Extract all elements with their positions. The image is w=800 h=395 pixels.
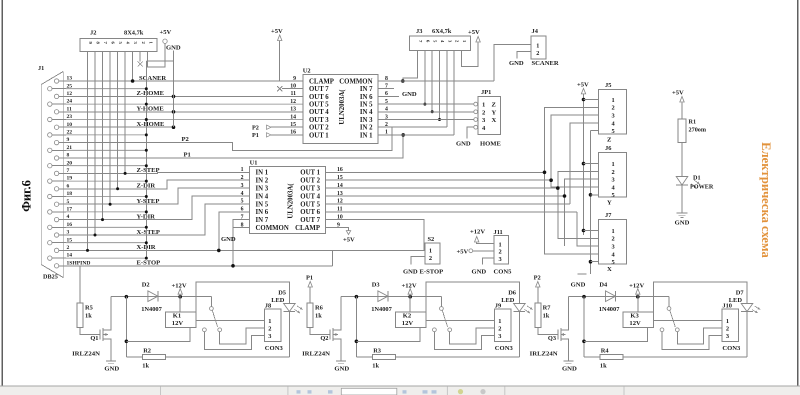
svg-text:CLAMP: CLAMP	[295, 225, 320, 232]
svg-text:CON3: CON3	[495, 345, 514, 352]
svg-text:P2: P2	[252, 124, 259, 131]
svg-text:2: 2	[612, 105, 615, 112]
wire SCANER row (pin13) to U2 pin9	[66, 80, 303, 82]
svg-text:7: 7	[241, 215, 244, 221]
svg-text:GND: GND	[675, 220, 690, 227]
svg-text:IN 7: IN 7	[256, 217, 269, 224]
svg-text:2: 2	[499, 249, 502, 256]
wire Q1 drain to K1 and R2	[125, 297, 127, 357]
svg-text:1: 1	[536, 42, 539, 49]
wire Y-HOME row (pin11) to U2 pin13	[66, 111, 303, 113]
bottom rail of block J10	[623, 356, 747, 358]
svg-text:OUT 4: OUT 4	[309, 109, 329, 116]
svg-text:2: 2	[536, 50, 539, 57]
svg-text:3: 3	[241, 183, 244, 189]
U2 IN5 wire to JP1 pin1	[378, 103, 474, 105]
svg-text:2: 2	[612, 236, 615, 243]
svg-text:IN 4: IN 4	[360, 109, 373, 116]
svg-text:4: 4	[241, 191, 244, 197]
svg-text:X: X	[607, 266, 612, 273]
svg-text:1: 1	[429, 247, 432, 254]
svg-text:5: 5	[612, 192, 615, 199]
connector J10 CON3	[722, 309, 739, 341]
svg-text:+12V: +12V	[402, 282, 417, 289]
wire J11 pin3 to GND	[483, 258, 494, 264]
svg-text:1: 1	[482, 102, 485, 109]
resistor R6 1k	[307, 303, 313, 327]
wire J4 pin2 to GND	[517, 52, 531, 59]
svg-text:U2: U2	[303, 68, 311, 75]
svg-text:J4: J4	[532, 28, 539, 35]
svg-text:CON3: CON3	[265, 345, 284, 352]
svg-text:2: 2	[612, 169, 615, 176]
wire X-DIR row to U1 IN6 and S2	[66, 249, 425, 251]
svg-text:P2: P2	[182, 136, 190, 143]
svg-text:OUT 2: OUT 2	[300, 178, 320, 185]
wire E-STOP row down to R5	[79, 266, 81, 303]
routing vertical to J6 pin2 / J7 pin2	[558, 171, 599, 238]
svg-text:Q1: Q1	[90, 335, 98, 342]
J3 columns to JP1 rows	[423, 51, 441, 121]
J2 no-connect column with X	[139, 52, 141, 62]
svg-text:9: 9	[293, 76, 296, 82]
svg-text:IRLZ24N: IRLZ24N	[530, 351, 558, 358]
svg-text:R1: R1	[689, 119, 697, 126]
svg-text:GND: GND	[104, 366, 119, 373]
svg-text:IN 1: IN 1	[360, 132, 373, 139]
svg-text:D3: D3	[372, 281, 380, 288]
svg-text:OUT 1: OUT 1	[300, 170, 320, 177]
resistor R5 1k	[77, 303, 83, 327]
IC U2 ULN2003A	[303, 75, 378, 144]
svg-text:D1: D1	[693, 175, 701, 182]
svg-text:IN 2: IN 2	[256, 178, 269, 185]
wire Q3 drain to K3 and R4	[583, 297, 585, 357]
GND bus of J5/J6/J7	[590, 131, 592, 274]
svg-text:OUT 7: OUT 7	[309, 86, 329, 93]
wire U1 OUT5 runner	[325, 203, 570, 205]
svg-text:Фиг.6: Фиг.6	[20, 180, 34, 212]
resistor R3 1k	[372, 355, 395, 360]
svg-text:3: 3	[726, 333, 729, 340]
svg-text:J6: J6	[605, 145, 612, 152]
svg-text:12V: 12V	[172, 320, 184, 327]
+5V flag feeding J5/J6/J7	[581, 88, 585, 94]
svg-text:OUT 7: OUT 7	[300, 217, 320, 224]
svg-text:1k: 1k	[543, 313, 550, 320]
svg-text:X: X	[492, 117, 497, 124]
svg-text:+5V: +5V	[457, 248, 469, 255]
svg-text:J5: J5	[605, 82, 611, 89]
bottom rail of block J9	[396, 356, 520, 358]
LED D6	[426, 282, 519, 312]
svg-text:E-STOP: E-STOP	[420, 269, 444, 276]
J2 column to SCANER row	[132, 52, 134, 81]
switch connector S2 E-STOP	[425, 243, 440, 264]
svg-text:K3: K3	[630, 313, 639, 320]
U2 IN7 stub	[378, 88, 394, 90]
svg-text:2: 2	[429, 255, 432, 262]
wire K2 to J9 pin1	[426, 320, 494, 322]
svg-text:LED: LED	[501, 297, 515, 304]
svg-text:HOME: HOME	[480, 141, 501, 148]
svg-text:CON3: CON3	[722, 345, 741, 352]
svg-text:+5V: +5V	[271, 28, 283, 35]
svg-text:1N4007: 1N4007	[599, 306, 620, 313]
svg-text:1k: 1k	[142, 362, 149, 369]
svg-text:D6: D6	[508, 290, 517, 297]
routing vertical OUT6 to J7 pin3	[577, 212, 599, 246]
wire U1 OUT3 runner	[325, 187, 558, 189]
svg-text:2: 2	[268, 326, 271, 333]
ground symbol at Q1 source	[106, 360, 116, 362]
svg-text:OUT 2: OUT 2	[309, 125, 329, 132]
svg-text:Z: Z	[492, 102, 497, 109]
svg-text:SCANER: SCANER	[532, 60, 559, 67]
relay K3 contacts	[668, 297, 670, 307]
JP1 pin4 wire to GND	[467, 127, 474, 138]
svg-text:12V: 12V	[402, 320, 414, 327]
svg-text:LED: LED	[271, 297, 285, 304]
svg-text:OUT 5: OUT 5	[300, 201, 320, 208]
svg-text:1N4007: 1N4007	[371, 306, 392, 313]
svg-text:Q2: Q2	[320, 335, 328, 342]
svg-text:GND: GND	[334, 366, 349, 373]
svg-text:Z: Z	[607, 136, 612, 143]
resistor R1 270ohm	[678, 119, 686, 143]
svg-text:+12V: +12V	[470, 228, 485, 235]
svg-text:J10: J10	[722, 303, 732, 310]
svg-text:P1: P1	[252, 132, 259, 139]
routing vertical to J6 pin3 / J7 pin3 upper	[565, 179, 599, 246]
bottom rail of block J8	[166, 356, 290, 358]
U2 IN1 wire	[378, 134, 454, 136]
svg-text:CON5: CON5	[494, 269, 513, 276]
svg-text:K1: K1	[173, 313, 181, 320]
svg-text:OUT 6: OUT 6	[309, 94, 329, 101]
svg-text:1k: 1k	[85, 313, 92, 320]
wire S2 pin2 to GND	[411, 256, 425, 264]
svg-text:Y: Y	[492, 109, 497, 116]
resistor network J3 6X4.7k	[410, 36, 471, 51]
ground symbol near J2	[146, 60, 173, 62]
svg-text:6: 6	[241, 207, 244, 213]
wire U1 OUT2 runner	[325, 179, 551, 181]
diode D2 1N4007	[148, 291, 158, 302]
relay K2 contacts	[440, 297, 442, 307]
routing vertical to J5 pin2 / J7 pin4	[545, 107, 599, 254]
svg-text:Електрическа схема: Електрическа схема	[759, 142, 773, 258]
svg-text:1: 1	[726, 318, 729, 325]
wire Z-HOME row (pin12) to U2 pin11	[66, 95, 303, 97]
svg-text:GND: GND	[166, 45, 181, 52]
svg-text:IN 2: IN 2	[360, 125, 373, 132]
svg-text:1: 1	[612, 228, 615, 235]
svg-text:1: 1	[241, 167, 244, 173]
svg-text:+5V: +5V	[160, 29, 172, 36]
U2 pin10 no-connect X	[282, 88, 303, 90]
resistor network J2 8X4.7k	[80, 38, 157, 51]
connector J1 DB25 outline	[41, 72, 63, 278]
svg-text:COMMON: COMMON	[256, 225, 289, 232]
viewer toolbar	[0, 386, 800, 395]
svg-text:P1: P1	[306, 274, 313, 281]
svg-text:5: 5	[241, 199, 244, 205]
svg-text:JP1: JP1	[481, 89, 491, 96]
connector J9 CON3	[494, 309, 511, 341]
svg-text:R3: R3	[373, 348, 381, 355]
svg-text:R7: R7	[543, 305, 552, 312]
transistor Q2 IRLZ24N	[310, 327, 330, 334]
connector J6	[599, 153, 627, 198]
svg-text:2: 2	[241, 175, 244, 181]
svg-text:270om: 270om	[689, 127, 707, 134]
U2 right pin numbers	[385, 76, 388, 136]
svg-text:+5V: +5V	[468, 29, 480, 36]
svg-text:ULN2003A(: ULN2003A(	[288, 183, 295, 219]
svg-text:J9: J9	[495, 303, 501, 310]
svg-text:3: 3	[612, 244, 615, 251]
wire E-STOP row to U1 IN7 and jog to S2 line	[66, 265, 333, 267]
svg-text:5: 5	[612, 259, 615, 266]
wire Y-DIR row to U1 IN4	[66, 196, 250, 220]
svg-text:IN 3: IN 3	[256, 186, 269, 193]
svg-text:Z-HOME: Z-HOME	[137, 90, 165, 97]
U2 IN6 stub to GND label	[378, 95, 399, 97]
svg-text:GND: GND	[472, 269, 487, 276]
J1 pin circles and leads	[48, 79, 66, 268]
svg-text:14: 14	[290, 114, 296, 120]
svg-text:1: 1	[498, 318, 501, 325]
svg-text:J2: J2	[90, 30, 96, 37]
U2 +5V to CLAMP	[279, 41, 281, 81]
svg-text:+5V: +5V	[577, 82, 589, 89]
svg-text:3: 3	[268, 333, 271, 340]
svg-text:IRLZ24N: IRLZ24N	[302, 351, 330, 358]
svg-text:J11: J11	[494, 229, 503, 236]
svg-text:IN 4: IN 4	[256, 193, 269, 200]
routing vertical to J5 pin3 / J6 pin4	[551, 115, 598, 187]
U2 IN3 wire to JP1 pin3	[378, 119, 474, 121]
drain rail of Q1	[111, 296, 212, 298]
svg-text:K2: K2	[403, 313, 412, 320]
svg-text:COMMON: COMMON	[339, 78, 372, 85]
svg-text:GND: GND	[456, 141, 471, 148]
connector J7	[599, 219, 627, 264]
LED D1 POWER	[676, 177, 688, 186]
svg-text:+5V: +5V	[343, 236, 355, 243]
J3 column to U2 COMMON node	[403, 51, 418, 81]
svg-text:6X4,7k: 6X4,7k	[432, 28, 452, 35]
junction dots on HOME rows	[172, 95, 176, 99]
routing vertical J5 pin4 to OUT5	[570, 123, 598, 204]
svg-text:P2: P2	[534, 274, 541, 281]
IC U1 ULN2003A	[250, 167, 326, 234]
ground symbol for D1	[677, 212, 688, 214]
wire K1 to J8 pin1	[196, 320, 264, 322]
svg-text:OUT 4: OUT 4	[300, 193, 320, 200]
svg-text:1k: 1k	[600, 362, 607, 369]
svg-text:SCANER: SCANER	[139, 75, 166, 82]
relay K2 coil 12V	[395, 312, 426, 327]
wire J4 pin1 to SCANER node	[494, 44, 531, 81]
svg-text:+5V: +5V	[672, 90, 684, 97]
signal name labels	[137, 75, 167, 267]
svg-text:IN 7: IN 7	[360, 86, 373, 93]
svg-text:D7: D7	[736, 290, 745, 297]
U2 IN4 wire to JP1 pin2	[378, 111, 474, 113]
U2 left pin numbers	[290, 76, 296, 136]
svg-text:13: 13	[290, 107, 296, 113]
drain rail of Q2	[341, 296, 442, 298]
svg-text:GND: GND	[571, 282, 586, 289]
U2 COMMON row wire to J4 drop	[378, 80, 494, 82]
svg-text:X-STEP: X-STEP	[137, 229, 160, 236]
svg-text:D5: D5	[278, 290, 286, 297]
wire Z-DIR row to U1 IN2	[66, 180, 250, 189]
LED D7	[654, 282, 747, 312]
relay K1 contacts	[210, 297, 212, 307]
connector JP1 HOME	[478, 97, 501, 135]
connector J5	[599, 90, 627, 135]
svg-text:OUT 1: OUT 1	[309, 132, 329, 139]
svg-text:GND: GND	[509, 60, 524, 67]
svg-text:E-STOP: E-STOP	[137, 260, 161, 267]
transistor Q3 IRLZ24N	[538, 327, 558, 334]
ground symbol at Q3 source	[563, 360, 573, 362]
svg-text:3: 3	[498, 333, 501, 340]
resistor R4 1k	[600, 355, 623, 360]
wire Z-STEP row to U1 IN1	[66, 172, 250, 173]
wire U1 OUT1 runner	[325, 171, 544, 173]
svg-text:R2: R2	[143, 348, 151, 355]
U2 IN2 wire	[378, 126, 447, 128]
svg-text:OUT 6: OUT 6	[300, 209, 320, 216]
svg-text:R6: R6	[315, 305, 324, 312]
svg-text:5: 5	[612, 128, 615, 135]
svg-text:+12V: +12V	[629, 282, 644, 289]
connector J8 CON3	[264, 309, 281, 341]
svg-text:GND: GND	[403, 269, 418, 276]
svg-text:GND: GND	[221, 236, 236, 243]
svg-text:J1: J1	[38, 65, 44, 72]
U1 COMMON to GND	[233, 228, 250, 234]
svg-text:D4: D4	[599, 281, 608, 288]
svg-text:Y-HOME: Y-HOME	[137, 106, 165, 113]
svg-text:3: 3	[612, 113, 615, 120]
svg-text:IRLZ24N: IRLZ24N	[72, 351, 100, 358]
svg-text:R4: R4	[601, 348, 610, 355]
svg-text:OUT 5: OUT 5	[309, 102, 329, 109]
connector J4	[531, 36, 546, 59]
LED D5	[196, 282, 289, 312]
wire ground rows pins 25-14	[66, 89, 303, 258]
svg-text:1: 1	[268, 318, 271, 325]
diode D3 1N4007	[378, 291, 388, 302]
J2 pull-up columns to STEP/DIR rows	[86, 52, 127, 252]
svg-text:U1: U1	[250, 160, 258, 167]
svg-text:IN 5: IN 5	[360, 102, 373, 109]
page right border	[797, 0, 799, 386]
svg-text:11: 11	[291, 91, 297, 97]
J3 columns to P2/P1 rows	[446, 51, 448, 128]
wire K3 to J10 pin1	[654, 320, 722, 322]
ground bus vertical	[145, 61, 147, 258]
svg-text:IN 6: IN 6	[360, 94, 373, 101]
svg-text:OUT 3: OUT 3	[309, 117, 329, 124]
svg-text:S2: S2	[428, 236, 435, 243]
page left border	[1, 0, 3, 386]
wire U1 OUT4 runner	[325, 195, 564, 197]
svg-text:IN 6: IN 6	[256, 209, 269, 216]
wire X-HOME row (pin10) to GND stem	[66, 126, 174, 128]
svg-text:12: 12	[290, 99, 296, 105]
svg-text:2: 2	[498, 326, 501, 333]
resistor R2 1k	[142, 355, 165, 360]
J1 pin numbers	[67, 76, 91, 267]
svg-text:3: 3	[612, 177, 615, 184]
relay K1 coil 12V	[165, 312, 196, 327]
wire Y-STEP row to U1 IN3	[66, 188, 250, 204]
svg-text:IN 1: IN 1	[256, 170, 269, 177]
svg-text:GND: GND	[402, 91, 417, 98]
resistor R7 1k	[535, 303, 541, 327]
svg-text:1k: 1k	[315, 313, 322, 320]
svg-text:1k: 1k	[372, 362, 379, 369]
svg-text:+12V: +12V	[172, 282, 187, 289]
U1 CLAMP to +5V flag	[325, 228, 348, 231]
svg-text:IN 5: IN 5	[256, 201, 269, 208]
svg-text:Z-STEP: Z-STEP	[137, 167, 160, 174]
svg-text:12V: 12V	[629, 320, 641, 327]
svg-text:2: 2	[726, 326, 729, 333]
svg-text:R5: R5	[85, 305, 93, 312]
wire P1 net from pin8 to U2 pin16 area	[66, 135, 403, 158]
ground symbol at Q2 source	[336, 360, 346, 362]
svg-text:1: 1	[612, 97, 615, 104]
svg-text:1: 1	[499, 241, 502, 248]
svg-text:DB25: DB25	[43, 274, 58, 281]
svg-text:3: 3	[499, 256, 502, 263]
svg-text:J7: J7	[605, 212, 612, 219]
wire P2 net from pin9 to U2 pin15 area	[66, 127, 392, 150]
svg-text:X-HOME: X-HOME	[137, 121, 165, 128]
svg-text:P1: P1	[184, 152, 191, 159]
svg-text:J8: J8	[265, 303, 271, 310]
U1 right pin numbers	[337, 167, 343, 228]
wire X-STEP row to U1 IN5	[66, 204, 250, 235]
svg-text:POWER: POWER	[690, 184, 714, 191]
connector J11 CON5	[494, 236, 508, 264]
svg-text:Y-STEP: Y-STEP	[137, 198, 160, 205]
wire U1 OUT7 to S2 line	[325, 220, 424, 251]
svg-text:CLAMP: CLAMP	[309, 78, 334, 85]
svg-text:1: 1	[612, 161, 615, 168]
svg-text:J3: J3	[416, 28, 422, 35]
svg-text:OUT 3: OUT 3	[300, 186, 320, 193]
transistor Q1 IRLZ24N	[80, 327, 100, 334]
svg-text:Q3: Q3	[548, 335, 556, 342]
svg-text:IN 3: IN 3	[360, 117, 373, 124]
wire Q2 drain to K2 and R3	[355, 297, 357, 357]
J3 +5V pin wire and flag	[461, 43, 478, 67]
svg-text:D2: D2	[142, 281, 150, 288]
svg-text:1N4007: 1N4007	[141, 306, 162, 313]
svg-text:Y: Y	[607, 199, 612, 206]
svg-text:ULN2003A(: ULN2003A(	[339, 89, 346, 125]
relay K3 coil 12V	[623, 312, 654, 327]
wire U1 OUT6 runner	[325, 211, 577, 213]
